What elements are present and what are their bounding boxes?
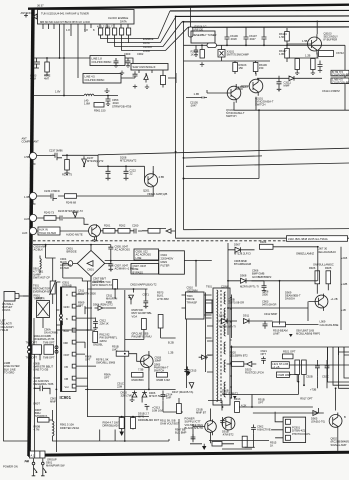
wire row4 rail (255, 321, 319, 324)
ac plug (4, 292, 15, 302)
svg-text:4M7: 4M7 (44, 77, 50, 81)
svg-text:AUX: AUX (24, 217, 30, 221)
svg-text:+1 +B: +1 +B (272, 365, 279, 369)
resistor R925 (326, 271, 331, 284)
svg-text:MTZJ/9(A)/T2: MTZJ/9(A)/T2 (87, 159, 104, 163)
capacitor C906 across (35, 386, 51, 395)
zener C971 (143, 298, 148, 308)
resistor R243 (44, 216, 56, 221)
saw filter box (131, 64, 168, 71)
svg-text:CELLDAN-BAC: CELLDAN-BAC (318, 250, 337, 254)
svg-text:+73B: +73B (310, 388, 316, 392)
svg-text:IC901: IC901 (60, 395, 72, 400)
svg-text:AUX: AUX (22, 231, 28, 235)
capacitor C907 (108, 261, 113, 271)
svg-text:EVERMOR-BT2: EVERMOR-BT2 (33, 290, 53, 294)
inductor L3203 (106, 28, 110, 35)
diode D902b symbol (129, 295, 134, 304)
svg-text:1.8: 1.8 (66, 28, 70, 32)
svg-text:1.8V: 1.8V (55, 90, 61, 94)
svg-text:MMF: MMF (50, 400, 56, 404)
pin boxes (72, 292, 76, 296)
tuner U3201 box (38, 10, 135, 25)
wire ac top rail (33, 244, 111, 246)
svg-text:TM2 OPT: TM2 OPT (26, 356, 38, 360)
svg-text:C92B: C92B (306, 375, 313, 379)
svg-text:0470.08-GR: 0470.08-GR (262, 303, 276, 307)
capacitor near q904 (220, 417, 225, 426)
wire bridge top (69, 245, 112, 281)
svg-text:LITD 30M: LITD 30M (157, 297, 169, 301)
svg-text:PWLMRYS RMU: PWLMRYS RMU (132, 335, 152, 339)
transistor Q202 audio mute (89, 225, 101, 237)
svg-text:R231 75: R231 75 (62, 173, 73, 177)
bus line 1 (170, 9, 349, 12)
diodes under t903 (199, 355, 208, 359)
capacitor C3108 (262, 27, 267, 45)
svg-text:R261: R261 (104, 224, 111, 228)
svg-text:LOCK: LOCK (143, 49, 150, 53)
svg-text:BT/AMBLGMZ: BT/AMBLGMZ (234, 262, 252, 266)
wire base q3102 (207, 90, 231, 93)
svg-text:C904: C904 (161, 253, 168, 257)
svg-text:ENABLE: ENABLE (143, 37, 154, 41)
resistor R3201 (45, 62, 50, 72)
resistor R231 (65, 160, 70, 171)
svg-text:+1B: +1B (341, 308, 346, 312)
wire t903 pins (182, 295, 212, 315)
wire bridge right (105, 252, 159, 261)
svg-text:1.5K: 1.5K (279, 35, 285, 39)
svg-text:D902 MAPPILB(X)-T2: D902 MAPPILB(X)-T2 (131, 283, 158, 287)
wire aux2 line (37, 230, 89, 232)
capacitor C912 (263, 321, 268, 329)
resistor R923 (302, 360, 307, 375)
box degauss L (32, 345, 42, 355)
resistor R973 (158, 315, 163, 329)
svg-text:SLGMB: SLGMB (93, 280, 102, 284)
capacitor C2034 series (48, 194, 57, 202)
box label C905 spec (134, 249, 159, 260)
tuner pin stubs (43, 24, 128, 58)
wire line y148 pair a (98, 148, 349, 155)
IC901 body (61, 287, 77, 392)
capacitor C3643 (106, 96, 111, 106)
wire row3 vertical (307, 302, 309, 322)
inductor L3206 (127, 28, 131, 35)
svg-text:C915: C915 (190, 369, 197, 373)
wire saw outputs (139, 70, 163, 73)
bus line 2 (176, 15, 349, 18)
svg-text:DICEMGR+4T/36: DICEMGR+4T/36 (34, 337, 55, 341)
svg-text:22M 1K: 22M 1K (100, 322, 109, 326)
resistor R924 (260, 244, 274, 249)
capacitor C3106 (225, 27, 230, 45)
svg-text:SIGNAL AMP: SIGNAL AMP (331, 443, 347, 447)
svg-text:1K: 1K (191, 53, 194, 57)
wire line y154 pair b (184, 156, 263, 158)
svg-text:1.3B: 1.3B (194, 92, 200, 96)
svg-text:LINE TO GB: LINE TO GB (34, 368, 49, 372)
svg-text:R921 OPT: R921 OPT (283, 350, 296, 354)
svg-text:MB NC MC AGC NT BM IF BT/N AY: MB NC MC AGC NT BM IF BT/N AY LOCK (40, 20, 90, 24)
wire top row link (88, 288, 148, 290)
connector circles left (28, 346, 31, 349)
capacitor C3107 (244, 27, 249, 45)
svg-text:FILTER: FILTER (161, 264, 170, 268)
diode D905 (253, 408, 324, 416)
wire aux1 line (37, 218, 89, 224)
wire pc901 links (271, 412, 283, 438)
wire transformer to r920 row (227, 363, 232, 365)
left border bar (29, 8, 33, 456)
box L3614 colpits (83, 74, 121, 84)
svg-text:R925: R925 (325, 266, 332, 270)
box aux filter (38, 227, 60, 235)
extra wires ic pins to components (85, 306, 95, 354)
wire r905 to relay col (125, 330, 144, 340)
switch S901b (42, 462, 45, 465)
wire row 407 (240, 395, 313, 408)
svg-text:GWO/BLL 39KB: GWO/BLL 39KB (96, 361, 115, 365)
dashed hot-cold separator (33, 240, 349, 242)
svg-text:C909: C909 (124, 52, 131, 56)
svg-text:DAS/DA: DAS/DA (285, 297, 295, 301)
svg-text:1.8K: 1.8K (279, 52, 285, 56)
transistor Q3102 (227, 86, 241, 100)
wire secondary vertical x318 (317, 247, 319, 281)
svg-text:+21B: +21B (341, 256, 347, 260)
svg-text:CLOCK: CLOCK (143, 45, 152, 49)
svg-text:MZP/9.6P/TL-TI: MZP/9.6P/TL-TI (240, 284, 259, 288)
wire enable to bus (121, 11, 170, 39)
svg-text:D907: D907 (234, 243, 241, 247)
resistor R263 (148, 229, 160, 234)
svg-text:PIF DE: PIF DE (195, 28, 204, 32)
transistor Q3103 (308, 37, 322, 51)
connector oval left of bridge (68, 261, 72, 267)
svg-text:BAR: BAR (64, 329, 70, 333)
svg-text:36 37: 36 37 (37, 4, 44, 8)
power connector box (30, 451, 46, 458)
box label colposn 1 (331, 70, 349, 76)
wire mid vertical (222, 375, 298, 395)
svg-text:A 1: A 1 (31, 454, 35, 458)
svg-text:D90T: D90T (34, 402, 41, 406)
svg-text:L902 JB/G 9848 20/25 GA-T934A: L902 JB/G 9848 20/25 GA-T934A (288, 237, 328, 241)
resistor R246 (65, 194, 77, 199)
svg-text:150: 150 (239, 66, 244, 70)
junction dots if rail (226, 44, 228, 46)
wire q201 collector up (152, 166, 154, 174)
svg-text:30MF: 30MF (155, 359, 162, 363)
diode D237 (82, 156, 87, 166)
svg-text:C3742: C3742 (336, 51, 344, 55)
svg-text:1MF: 1MF (166, 396, 172, 400)
svg-text:OPT: OPT (258, 401, 264, 405)
diode D914 (189, 383, 194, 389)
capacitor C243 series (60, 216, 66, 221)
choke T901 coil (53, 421, 55, 436)
resistor R906 (132, 373, 144, 378)
svg-text:OPT: OPT (104, 376, 110, 380)
node audio2 (29, 227, 36, 234)
svg-text:OPT: OPT (78, 304, 84, 308)
svg-text:1K: 1K (270, 444, 273, 448)
svg-text:DB: DB (65, 377, 69, 381)
svg-text:STR/NB: STR/NB (62, 284, 72, 288)
svg-text:COLPOSN-BRKE: COLPOSN-BRKE (332, 73, 349, 77)
wire if out right (168, 73, 176, 83)
top border line (28, 5, 349, 9)
transformer outer box (213, 288, 230, 405)
wire c904 to transformer (184, 261, 211, 287)
wire y387 long (130, 388, 176, 390)
wire rows to right edge (289, 365, 349, 388)
svg-text:+1.2B: +1.2B (331, 297, 338, 301)
transistor Q3101 (249, 79, 263, 93)
svg-text:B: B (66, 317, 68, 321)
node video (29, 192, 36, 199)
ground marks power (95, 244, 97, 246)
svg-text:32M (7)41: 32M (7)41 (121, 394, 134, 398)
svg-text:D917 (MA165-TA): D917 (MA165-TA) (172, 390, 193, 394)
inductor L3202 (99, 28, 103, 35)
svg-text:4.5 L2 1.8 L7: 4.5 L2 1.8 L7 (97, 25, 113, 29)
wire right column (337, 45, 345, 110)
wire center bottom links (149, 389, 183, 412)
ground g1 (187, 372, 191, 375)
photocoupler PC901 (283, 417, 306, 442)
svg-text:BRIDGE: BRIDGE (67, 250, 77, 254)
junction dots on agc rail (46, 57, 48, 59)
capacitor C914 (161, 391, 166, 401)
svg-text:.0047: .0047 (249, 37, 256, 41)
svg-text:SWITCH: SWITCH (255, 103, 266, 107)
wire main if rail (184, 44, 346, 46)
connector circles small pair (60, 314, 63, 317)
bottom border line (28, 452, 349, 455)
resistor R3107 (200, 50, 204, 59)
svg-text:150: 150 (259, 66, 264, 70)
wire agc rail (33, 57, 78, 59)
svg-text:DESEMBLY TUNER: DESEMBLY TUNER (193, 33, 217, 37)
svg-text:MMF: MMF (284, 84, 290, 88)
resistor R921 (283, 354, 294, 359)
regulator D916 circle (222, 417, 235, 430)
capacitor C3212 (133, 71, 138, 78)
wire transformer right rail (231, 295, 233, 399)
relay box on line (116, 351, 129, 356)
svg-text:COLPOSN-BRKE: COLPOSN-BRKE (332, 80, 349, 84)
capacitor C915 (184, 367, 189, 376)
resistor R911 vertical (177, 404, 182, 414)
svg-text:SMTT/5.5M/CHMP: SMTT/5.5M/CHMP (227, 53, 250, 57)
resistor R902 (38, 418, 50, 423)
capacitor C908 (262, 281, 267, 292)
svg-text:HOLD FILTER: HOLD FILTER (39, 231, 56, 235)
svg-text:R262: R262 (119, 224, 126, 228)
svg-text:R961 150: R961 150 (94, 109, 106, 113)
transistor Q901 (315, 295, 328, 308)
svg-text:(GA310-T0): (GA310-T0) (311, 420, 325, 424)
svg-text:T901: T901 (206, 285, 213, 289)
capacitor C3105 (186, 97, 207, 99)
svg-text:GAM VOLT/BST: GAM VOLT/BST (160, 422, 180, 426)
svg-text:R243 73: R243 73 (44, 211, 55, 215)
diode D920 (244, 362, 256, 367)
svg-text:LINE 1.8: LINE 1.8 (92, 57, 103, 61)
diode D260 (166, 229, 175, 234)
crystal X3101 (218, 50, 225, 58)
svg-text:4.5B: 4.5B (159, 175, 165, 179)
wire row2 rail (228, 280, 318, 282)
svg-text:CONV: CONV (221, 285, 229, 289)
diode D3101 (257, 76, 322, 81)
inductor L3205 (120, 28, 124, 35)
svg-text:GND: GND (64, 305, 70, 309)
vertical drop x183.5 (183, 22, 185, 230)
svg-text:+12B: +12B (341, 282, 347, 286)
svg-text:MMF BT: MMF BT (196, 411, 207, 415)
ground g3 (289, 334, 293, 337)
resistor R912 (93, 332, 98, 343)
diode D912 (219, 319, 238, 324)
svg-text:D901: D901 (88, 268, 95, 272)
svg-text:GMBZLLAMNZ: GMBZLLAMNZ (296, 252, 314, 256)
svg-text:COLPION BRSC: COLPION BRSC (92, 60, 112, 64)
svg-text:1.2B: 1.2B (168, 351, 174, 355)
svg-text:VIDEO AMP(1)/B: VIDEO AMP(1)/B (147, 192, 167, 196)
svg-text:R917 OPT: R917 OPT (300, 397, 313, 401)
box C904 main filter (159, 251, 185, 274)
capacitor C902 (251, 425, 256, 434)
svg-text:Vcc: Vcc (65, 385, 70, 389)
capacitor C3209 (114, 58, 119, 68)
box C92B (277, 372, 290, 377)
wire r911 (178, 398, 180, 441)
svg-text:ANTENNA: ANTENNA (21, 11, 34, 15)
diode D906 row (228, 247, 255, 252)
box pif label (191, 31, 215, 43)
junction dots extra (124, 440, 126, 442)
wire center vertical x87.5 (87, 281, 89, 389)
ground symbols top-left caps (120, 71, 124, 75)
wire row3 (228, 307, 308, 309)
svg-text:4.7M: 4.7M (34, 428, 40, 432)
svg-text:.47M BT2: .47M BT2 (222, 433, 234, 437)
capacitor C3121 (194, 45, 198, 56)
vertical drop x175.6 (176, 16, 349, 238)
capacitor C923 (325, 360, 330, 376)
svg-text:GND/BL: GND/BL (93, 343, 103, 347)
wire bridge bottom vertical (56, 276, 91, 330)
svg-text:DRIFTED 29/0A: DRIFTED 29/0A (60, 426, 79, 430)
capacitor C237 series (52, 153, 62, 161)
diode D906b (142, 391, 147, 403)
svg-text:CLOCK ENABLE: CLOCK ENABLE (108, 16, 128, 20)
svg-text:VOA: VOA (132, 314, 138, 318)
svg-text:MAIN/PWR SW: MAIN/PWR SW (46, 464, 65, 468)
wire bottom right rails (208, 401, 255, 450)
capacitor C916 (191, 434, 196, 442)
svg-text:CELEBRN BT2: CELEBRN BT2 (230, 354, 249, 358)
svg-text:4.5B: 4.5B (24, 155, 30, 159)
svg-text:OPT: OPT (85, 358, 91, 362)
vertical x259 (258, 110, 260, 178)
junction dots bus verticals (175, 16, 177, 18)
wire pin stub down to l40 (64, 58, 78, 96)
inductor L40 coil (84, 94, 94, 96)
svg-text:GB/70.08-GR: GB/70.08-GR (228, 301, 244, 305)
svg-text:IF BUFFER: IF BUFFER (324, 38, 338, 42)
svg-text:R906 BB9: R906 BB9 (132, 378, 145, 382)
wire ac line far left (4, 302, 29, 442)
svg-text:MTZJ/9(A)/T2: MTZJ/9(A)/T2 (120, 159, 137, 163)
wire audio mute emitter gnd (92, 237, 96, 241)
svg-text:C962: C962 (137, 52, 144, 56)
capacitor C921 (261, 357, 266, 365)
svg-text:MTZJ7.5B/T2: MTZJ7.5B/T2 (222, 392, 239, 396)
resistor R91C bottom (212, 442, 222, 447)
svg-text:STRNFOB 4759: STRNFOB 4759 (112, 105, 132, 109)
ground arrow bottom (202, 446, 206, 450)
svg-text:GCXBMP/BMP2: GCXBMP/BMP2 (252, 275, 272, 279)
wire c971 top (115, 289, 146, 299)
capacitor C3118 (318, 61, 323, 73)
resistor R90B (157, 373, 168, 378)
extra diode row mid bottom (208, 353, 212, 356)
diode D904 (95, 306, 106, 311)
wire relay vertical (124, 290, 126, 441)
svg-text:D908: D908 (240, 274, 247, 278)
svg-text:C260: C260 (132, 224, 139, 228)
wire degauss (34, 318, 43, 345)
ground marks under colpits (105, 88, 110, 93)
wire d904 row link (85, 307, 116, 309)
capacitor C3111 (277, 76, 282, 91)
capacitor C260 series (134, 229, 142, 234)
transistor Q201 (144, 174, 157, 187)
wire data to bus (125, 16, 176, 42)
capacitor C905 (108, 245, 113, 252)
svg-text:DRRGBLMD RCT: DRRGBLMD RCT (138, 418, 160, 422)
transistor Q902 (329, 415, 342, 428)
svg-text:LMC: LMC (112, 348, 118, 352)
capacitor C913 (145, 405, 150, 411)
wire line y178 (184, 178, 260, 180)
wire top right connectors (175, 151, 177, 153)
svg-text:RUSTCE LPCH: RUSTCE LPCH (245, 371, 264, 375)
bus line 4 (188, 26, 349, 28)
svg-text:COLPION BRSC: COLPION BRSC (85, 78, 105, 82)
svg-text:SN ACRMS: SN ACRMS (44, 331, 58, 335)
ground arrow under R904a (119, 432, 124, 437)
wire bottom rail (60, 430, 119, 442)
right edge vertical group to merge rows (328, 347, 349, 388)
wire q collector links (234, 73, 256, 111)
resistor R3120 (311, 59, 315, 70)
bus line 3 (182, 20, 349, 22)
wire q3103 base (287, 21, 317, 45)
svg-text:7.8: 7.8 (84, 28, 88, 32)
switch S901a (32, 462, 35, 465)
degauss relay box (37, 301, 50, 318)
connector circles right (55, 346, 58, 349)
wire left of transformer (186, 319, 188, 388)
svg-text:C912 680P: C912 680P (264, 312, 277, 316)
svg-text:7.5B: 7.5B (138, 368, 144, 372)
